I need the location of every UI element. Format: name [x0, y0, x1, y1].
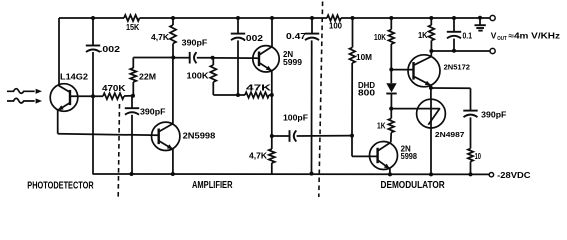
resistor 10M: [350, 18, 373, 136]
junction (10M branch / rail): [351, 16, 355, 20]
resistor 10: [468, 149, 481, 175]
ground symbol: [475, 18, 486, 31]
resistor 22M: [130, 58, 156, 96]
svg-text:22M: 22M: [139, 71, 156, 81]
junction (47K / Q3 emitter): [270, 93, 274, 97]
svg-text:≈4m V/KHz: ≈4m V/KHz: [509, 31, 561, 40]
transistor Q4 2N5998 (demodulator): [370, 142, 418, 170]
resistor 15K (series in top rail): [124, 15, 139, 32]
capacitor 100pF (series): [272, 113, 352, 141]
transistor Q3 2N5999: [253, 46, 303, 72]
junction (diode / 2N4987 gate node): [389, 107, 393, 111]
svg-text:100pF: 100pF: [283, 113, 308, 122]
wire Q1 emitter to 2N5998 base: [58, 103, 159, 136]
light input arrow 2: [7, 98, 42, 103]
capacitor 0.1: [447, 18, 472, 51]
svg-text:.002: .002: [100, 45, 121, 54]
junction (Q3 emitter / 100pF / 4.7K node): [270, 134, 274, 138]
wire Q2 collector: [159, 58, 173, 132]
terminal -28VDC: [489, 173, 493, 177]
svg-text:1K: 1K: [377, 121, 386, 131]
junction (.002 / 470K / base node): [91, 94, 95, 98]
phototransistor Q1 L14G2: [50, 71, 88, 111]
capacitor 390pF (demodulator): [463, 88, 506, 148]
resistor 4.7K (emitter): [249, 136, 275, 174]
wire Q4 emitter: [378, 160, 390, 174]
junction (4.7K branch / rail): [171, 16, 175, 20]
wire 22M top to 4.7K node: [133, 57, 173, 59]
svg-text:390pF: 390pF: [140, 107, 166, 116]
svg-text:2N5998: 2N5998: [183, 130, 216, 140]
junction (1K / Q5 collector / output node): [429, 49, 433, 53]
svg-text:OUT: OUT: [497, 36, 507, 42]
svg-text:2N5172: 2N5172: [444, 63, 470, 72]
junction (0.47 branch / bottom rail): [310, 172, 314, 176]
wire 470K node to ground rail: [92, 96, 94, 174]
junction (.002 branch 2 / rail): [236, 16, 240, 20]
wire 100K bottom to 47K node: [213, 94, 238, 96]
svg-text:0.47: 0.47: [286, 31, 306, 41]
junction (0.47 branch / rail): [310, 16, 314, 20]
svg-text:4,7K: 4,7K: [151, 33, 169, 42]
svg-text:100: 100: [329, 21, 342, 31]
label AMPLIFIER: [192, 180, 233, 191]
svg-text:AMPLIFIER: AMPLIFIER: [192, 180, 233, 191]
transistor Q2 2N5998 (amplifier): [152, 122, 216, 150]
junction (10K / Q5 base node): [389, 68, 393, 72]
svg-text:47K: 47K: [246, 84, 271, 93]
junction (2N5998 emitter / bottom rail): [171, 172, 175, 176]
svg-text:800: 800: [358, 89, 376, 98]
junction (10K branch / rail): [389, 16, 393, 20]
resistor 4.7K (collector load): [151, 18, 176, 58]
terminal VOUT (top): [490, 15, 495, 20]
resistor 1K (demodulator): [377, 109, 394, 133]
svg-text:390pF: 390pF: [481, 110, 506, 120]
wire Q5 base: [391, 69, 413, 71]
transistor Q6 2N4987 (PUT): [417, 99, 465, 139]
svg-text:390pF: 390pF: [182, 39, 208, 48]
terminal VOUT (bottom): [490, 48, 495, 53]
light input arrow 1: [7, 89, 42, 94]
wire Q5 emitter: [414, 76, 431, 99]
wire Q6 cathode to rail: [430, 128, 432, 174]
svg-text:0.1: 0.1: [463, 30, 473, 40]
resistor 470K: [93, 83, 133, 99]
svg-text:4,7K: 4,7K: [249, 152, 267, 161]
section divider (dashed) amplifier/demodulator: [319, 2, 323, 198]
wire base line to Q3: [213, 57, 259, 59]
svg-text:DEMODULATOR: DEMODULATOR: [381, 180, 445, 191]
wire Q5 collector: [414, 51, 432, 65]
wire 10M node to Q4 base: [352, 136, 378, 157]
wire Q1 collector: [59, 18, 70, 92]
capacitor 0.47: [286, 18, 319, 174]
junction (2N5999 collector / rail): [270, 16, 274, 20]
wire output node to terminal: [431, 50, 490, 52]
svg-text:2N4987: 2N4987: [435, 130, 465, 139]
junction (390pF branch / bottom rail): [130, 172, 134, 176]
junction (0.1 branch / rail): [452, 16, 456, 20]
junction (10M / 100pF node): [350, 134, 354, 138]
label -28VDC: [497, 171, 530, 180]
capacitor .002 (photodetector): [86, 18, 121, 96]
junction (10 ohm branch / bottom rail): [469, 172, 473, 176]
junction (470K / 22M / 390pF node): [131, 94, 135, 98]
svg-text:V: V: [491, 30, 497, 40]
label VOUT: [491, 30, 560, 42]
svg-text:5999: 5999: [283, 58, 303, 67]
junction (2N5998 demod emitter / bottom rail): [388, 172, 392, 176]
label DEMODULATOR: [381, 180, 445, 191]
capacitor 390pF (base bypass): [125, 96, 166, 174]
junction (.002 / 47K node): [236, 93, 240, 97]
resistor 100 (series in top rail): [327, 15, 342, 30]
wire Q1 base: [70, 95, 93, 97]
junction (ground stub / rail): [478, 16, 482, 20]
resistor 47K: [238, 84, 272, 98]
wire top supply rail: [59, 17, 490, 19]
svg-text:.002: .002: [243, 34, 264, 43]
capacitor .002 (second): [231, 18, 264, 95]
junction (2N4987 cathode / bottom rail): [429, 172, 433, 176]
resistor 100K: [187, 58, 217, 95]
svg-text:10: 10: [475, 151, 482, 161]
svg-text:5998: 5998: [401, 152, 418, 161]
svg-text:10M: 10M: [356, 52, 372, 62]
wire Q6 gate: [391, 108, 416, 110]
wire bottom ground rail: [93, 173, 490, 175]
svg-text:PHOTODETECTOR: PHOTODETECTOR: [27, 180, 93, 191]
diode D1 DHD 800: [358, 70, 397, 109]
svg-text:-28VDC: -28VDC: [497, 171, 530, 180]
svg-text:15K: 15K: [126, 23, 139, 32]
svg-text:470K: 470K: [102, 83, 126, 93]
junction (.002 branch / rail): [91, 16, 95, 20]
capacitor 390pF (series coupling): [173, 39, 212, 64]
svg-text:10K: 10K: [374, 32, 386, 42]
wire Q3 collector: [259, 18, 272, 55]
wire Q3 emitter: [259, 63, 272, 136]
junction (Q5 emitter / 390pF wire): [429, 86, 433, 90]
svg-text:100K: 100K: [187, 71, 209, 81]
junction (1K branch / rail): [429, 16, 433, 20]
junction (390pF / 100K / base node): [211, 56, 215, 60]
resistor 1K (output): [418, 18, 434, 51]
transistor Q5 2N5172: [408, 55, 470, 87]
wire emitter node to 390pF: [431, 87, 471, 89]
junction (4.7K / 390pF / 22M / collector node): [171, 56, 175, 60]
wire Q2 emitter: [159, 141, 173, 174]
wire Q4 collector: [378, 133, 392, 152]
svg-text:1K: 1K: [418, 30, 428, 40]
resistor 10K: [374, 18, 394, 70]
label PHOTODETECTOR: [27, 180, 93, 191]
section divider (dashed) photodetector/amplifier: [118, 104, 119, 197]
junction (0.1 / output wire): [452, 49, 456, 53]
svg-text:L14G2: L14G2: [60, 71, 88, 81]
